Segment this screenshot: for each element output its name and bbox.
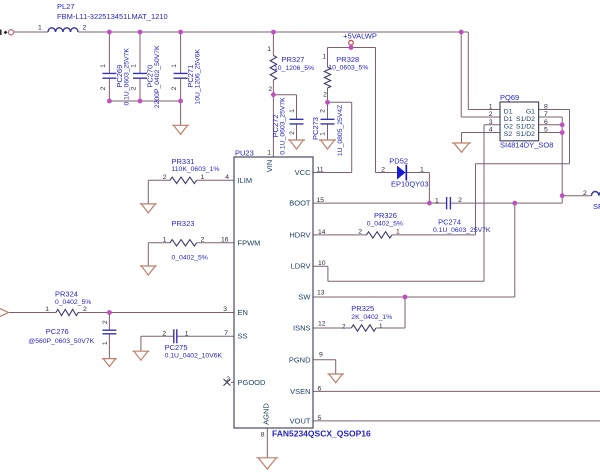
svg-text:0_0402_5%: 0_0402_5% [367, 220, 403, 227]
svg-text:2: 2 [342, 324, 346, 331]
svg-text:PR324: PR324 [55, 290, 78, 299]
svg-text:1U_0805_25V4Z: 1U_0805_25V4Z [337, 105, 344, 156]
svg-text:LDRV: LDRV [291, 262, 311, 271]
svg-text:1: 1 [267, 149, 271, 156]
svg-text:1: 1 [379, 323, 383, 330]
svg-text:+5VALWP: +5VALWP [343, 31, 377, 40]
svg-text:6: 6 [318, 385, 322, 392]
svg-text:PR326: PR326 [374, 211, 397, 220]
svg-text:8: 8 [544, 104, 548, 111]
svg-text:2: 2 [171, 86, 178, 90]
svg-text:2: 2 [201, 236, 205, 243]
svg-text:EN: EN [238, 308, 248, 317]
svg-text:15: 15 [317, 197, 325, 204]
svg-text:0.1U_0603_25V7K: 0.1U_0603_25V7K [280, 97, 287, 155]
svg-text:1: 1 [289, 109, 296, 113]
svg-text:1: 1 [322, 54, 326, 61]
svg-text:PU23: PU23 [235, 149, 254, 158]
svg-text:1: 1 [435, 198, 439, 205]
svg-text:VIN: VIN [265, 160, 274, 173]
svg-text:S1/D2: S1/D2 [516, 131, 535, 138]
svg-text:1: 1 [420, 166, 424, 173]
svg-text:7: 7 [224, 330, 228, 337]
svg-text:2: 2 [323, 92, 327, 99]
svg-text:1: 1 [45, 306, 49, 313]
svg-text:PC273: PC273 [311, 117, 320, 140]
svg-text:1: 1 [102, 341, 109, 345]
svg-text:2: 2 [102, 320, 109, 324]
svg-text:PL27: PL27 [57, 2, 75, 11]
svg-text:S2: S2 [504, 131, 513, 138]
svg-text:SS: SS [238, 332, 248, 341]
svg-text:G2: G2 [504, 124, 513, 131]
svg-text:1: 1 [267, 46, 271, 53]
svg-text:PC275: PC275 [165, 343, 188, 352]
svg-text:2: 2 [163, 174, 167, 181]
svg-text:1: 1 [185, 331, 189, 338]
svg-text:0_0402_5%: 0_0402_5% [172, 255, 208, 262]
svg-text:FBM-L11-322513451LMAT_1210: FBM-L11-322513451LMAT_1210 [57, 12, 168, 21]
svg-text:ILIM: ILIM [238, 176, 253, 185]
svg-text:PGND: PGND [289, 355, 311, 364]
svg-text:11: 11 [317, 167, 324, 174]
svg-text:PGOOD: PGOOD [238, 378, 267, 387]
svg-text:14: 14 [318, 229, 326, 236]
svg-text:1: 1 [489, 104, 493, 111]
svg-text:6: 6 [544, 119, 548, 126]
svg-text:9: 9 [319, 351, 323, 358]
svg-text:2: 2 [83, 25, 87, 32]
svg-text:BOOT: BOOT [289, 199, 311, 208]
svg-text:PR325: PR325 [351, 304, 374, 313]
svg-text:PR328: PR328 [336, 55, 359, 64]
svg-text:D1: D1 [504, 116, 513, 123]
svg-text:S1/D2: S1/D2 [516, 116, 535, 123]
svg-text:1: 1 [100, 64, 107, 68]
svg-text:110K_0603_1%: 110K_0603_1% [172, 166, 220, 173]
svg-text:5: 5 [318, 415, 322, 422]
svg-text:13: 13 [317, 290, 325, 297]
svg-text:0.1U_0603_25V7K: 0.1U_0603_25V7K [433, 227, 491, 234]
svg-text:PC274: PC274 [438, 218, 461, 227]
svg-text:2: 2 [381, 167, 385, 174]
svg-text:4: 4 [225, 174, 229, 181]
svg-text:2: 2 [289, 131, 296, 135]
svg-text:ISNS: ISNS [293, 324, 311, 333]
svg-text:SI4814DY_SO8: SI4814DY_SO8 [500, 140, 553, 149]
svg-text:PR331: PR331 [172, 157, 195, 166]
svg-text:2: 2 [226, 376, 230, 383]
svg-text:5: 5 [544, 127, 548, 134]
svg-text:12: 12 [318, 321, 326, 328]
svg-text:7: 7 [544, 111, 548, 118]
svg-text:3: 3 [223, 306, 227, 313]
svg-text:PQ69: PQ69 [500, 93, 519, 102]
svg-text:SF: SF [593, 202, 600, 211]
svg-text:10: 10 [318, 260, 326, 267]
svg-text:2: 2 [100, 86, 107, 90]
svg-text:2: 2 [268, 86, 272, 93]
svg-text:8: 8 [261, 432, 265, 439]
svg-text:0_0402_5%: 0_0402_5% [55, 299, 91, 306]
svg-text:HDRV: HDRV [289, 230, 310, 239]
svg-text:1: 1 [396, 229, 400, 236]
svg-text:16: 16 [221, 237, 229, 244]
svg-text:2200P_0402_50V7K: 2200P_0402_50V7K [154, 45, 161, 108]
svg-text:PR323: PR323 [172, 219, 195, 228]
svg-text:2: 2 [83, 306, 87, 313]
svg-text:G1: G1 [526, 109, 535, 116]
svg-text:1: 1 [171, 64, 178, 68]
svg-text:1: 1 [201, 174, 205, 181]
svg-text:SW: SW [298, 293, 311, 302]
svg-text:10_1206_5%: 10_1206_5% [274, 65, 314, 72]
svg-text:2: 2 [320, 109, 327, 113]
svg-text:VCC: VCC [295, 168, 311, 177]
svg-text:2: 2 [358, 229, 362, 236]
svg-text:2K_0402_1%: 2K_0402_1% [351, 314, 392, 321]
svg-text:D1: D1 [504, 109, 513, 116]
svg-text:VOUT: VOUT [290, 416, 311, 425]
svg-text:1: 1 [163, 236, 167, 243]
svg-text:2: 2 [489, 111, 493, 118]
svg-text:2: 2 [583, 190, 587, 197]
svg-text:EP10QY03: EP10QY03 [391, 180, 429, 189]
svg-text:0.1U_0402_10V6K: 0.1U_0402_10V6K [165, 353, 223, 360]
svg-text:3: 3 [489, 119, 493, 126]
svg-text:FPWM: FPWM [238, 238, 261, 247]
svg-text:@560P_0603_50V7K: @560P_0603_50V7K [28, 338, 94, 345]
svg-text:FAN5234QSCX_QSOP16: FAN5234QSCX_QSOP16 [272, 429, 371, 439]
svg-text:10U_1206_25V6K: 10U_1206_25V6K [195, 49, 202, 105]
svg-text:PC276: PC276 [46, 327, 69, 336]
svg-text:1: 1 [320, 132, 327, 136]
svg-text:0.1U_0603_25V7K: 0.1U_0603_25V7K [123, 48, 130, 106]
svg-text:VSEN: VSEN [290, 387, 310, 396]
svg-text:1: 1 [131, 64, 138, 68]
svg-text:2: 2 [131, 86, 138, 90]
svg-text:PD52: PD52 [389, 157, 408, 166]
svg-text:2: 2 [458, 197, 462, 204]
svg-text:2: 2 [162, 331, 166, 338]
svg-text:AGND: AGND [261, 403, 270, 425]
svg-text:S1/D2: S1/D2 [516, 124, 535, 131]
svg-text:1: 1 [38, 25, 42, 32]
svg-text:PR327: PR327 [282, 55, 305, 64]
svg-text:4: 4 [489, 127, 493, 134]
svg-text:10_0603_5%: 10_0603_5% [328, 65, 368, 72]
